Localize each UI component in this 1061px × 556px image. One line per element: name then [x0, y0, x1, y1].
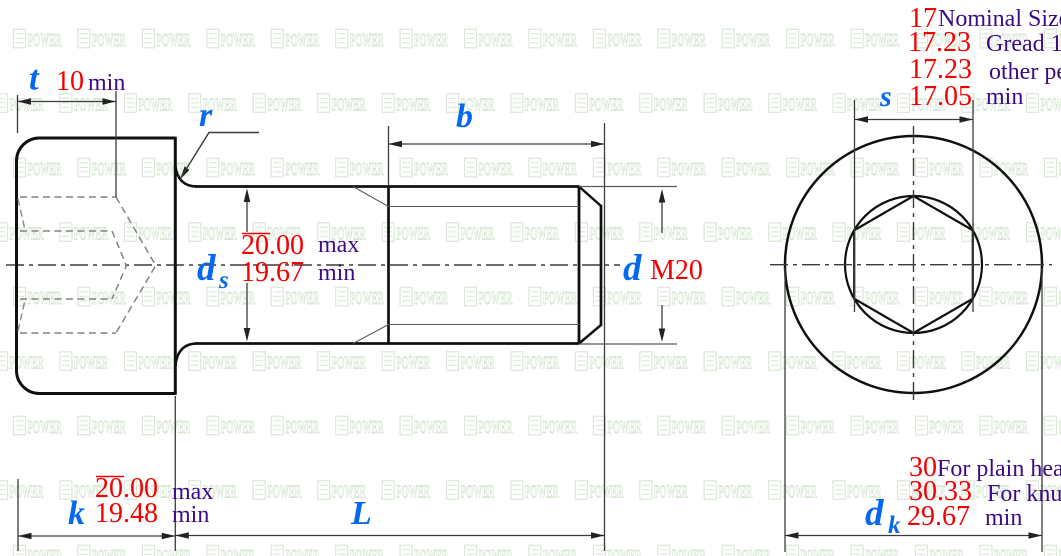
overline on k 20.00	[96, 476, 124, 478]
dim b extension left	[388, 126, 390, 185]
dim d arrow up	[661, 194, 663, 233]
svg-text:min: min	[986, 84, 1023, 110]
svg-text:max: max	[318, 232, 359, 258]
svg-text:min: min	[985, 505, 1022, 531]
dim dk line	[785, 535, 1042, 537]
svg-text:19.67: 19.67	[241, 257, 304, 288]
svg-text:other per: other per	[989, 59, 1061, 85]
dim t extension right (socket depth)	[115, 91, 117, 197]
svg-text:17.05: 17.05	[909, 81, 972, 112]
leader r arrow	[180, 166, 190, 180]
svg-text:min: min	[318, 260, 355, 286]
socket entry chamfer bottom	[18, 300, 25, 331]
svg-text:M20: M20	[650, 255, 703, 286]
shank top line	[195, 185, 579, 188]
dim t line	[18, 101, 117, 103]
end view outer circle	[785, 136, 1042, 393]
svg-text:b: b	[456, 98, 473, 135]
svg-text:r: r	[199, 97, 213, 134]
end chamfer top	[579, 187, 601, 207]
centerline side view	[6, 264, 620, 266]
end view hex socket	[854, 196, 973, 333]
dim b arrow left	[389, 141, 403, 148]
svg-text:s: s	[879, 80, 892, 113]
dim L arrow right	[591, 532, 605, 539]
dim L line	[175, 535, 604, 537]
dim t extension left	[17, 95, 19, 133]
end view centerline vertical	[913, 126, 915, 405]
dim k arrow right	[162, 533, 176, 540]
dim b line	[389, 143, 605, 145]
dim k extension left	[17, 479, 19, 551]
socket hex small chevron	[112, 231, 127, 299]
dim dk extension left	[784, 268, 786, 552]
dim dk extension right	[1041, 268, 1043, 552]
end view socket circle	[845, 196, 982, 333]
svg-text:L: L	[350, 495, 372, 532]
svg-text:t: t	[29, 59, 40, 98]
dim ds arrow up	[246, 193, 248, 232]
dim t arrow right	[103, 98, 117, 105]
dim ds arrow down	[246, 283, 248, 337]
fillet top r	[175, 165, 197, 187]
svg-text:min: min	[172, 502, 209, 528]
end face	[600, 205, 603, 326]
socket hidden line outer top	[20, 196, 116, 198]
dim L arrow left	[175, 532, 189, 539]
head right face	[174, 137, 177, 395]
svg-text:k: k	[68, 495, 85, 532]
leader r line	[181, 133, 259, 178]
thread start line	[387, 186, 390, 345]
svg-text:k: k	[888, 512, 901, 539]
dim s extension left	[854, 100, 856, 312]
thread runout top	[353, 187, 389, 207]
dim d arrow down	[661, 305, 663, 338]
thread runout bottom	[353, 325, 389, 344]
socket hidden line inner bottom	[20, 298, 112, 300]
svg-text:For knurled: For knurled	[987, 481, 1061, 507]
dim b extension right / L extension right	[604, 123, 606, 551]
dim k extension right	[174, 396, 176, 551]
dim s arrow right	[960, 116, 974, 123]
thread minor bottom	[389, 324, 580, 326]
dim t arrow left	[18, 98, 32, 105]
dim s line	[855, 119, 974, 121]
end chamfer bottom	[579, 325, 601, 344]
overline on 20.00	[242, 233, 270, 235]
socket hidden line outer bottom	[20, 332, 116, 334]
svg-text:d: d	[197, 248, 216, 289]
socket cone big chevron	[116, 197, 156, 333]
dim dk arrow right	[1029, 532, 1043, 539]
svg-text:10: 10	[56, 66, 84, 97]
head outline	[17, 138, 176, 394]
fillet bottom	[175, 344, 197, 367]
svg-text:d: d	[865, 493, 884, 534]
svg-text:s: s	[218, 267, 229, 294]
dim s arrow left	[855, 116, 869, 123]
shank bottom line	[195, 342, 579, 345]
dim dk arrow left	[785, 532, 799, 539]
dim b arrow right	[591, 141, 605, 148]
end view centerline horizontal	[770, 264, 1052, 266]
thread minor top	[389, 206, 580, 208]
svg-text:19.48: 19.48	[95, 498, 158, 529]
svg-text:Gread 12: Gread 12	[986, 31, 1061, 57]
svg-text:29.67: 29.67	[907, 501, 970, 532]
socket hidden line inner top	[20, 230, 112, 232]
dim k line	[18, 535, 175, 537]
thread end line	[578, 186, 581, 345]
svg-text:d: d	[623, 248, 642, 289]
dim k arrow left	[18, 533, 32, 540]
d crest line extended bottom	[579, 343, 677, 345]
svg-text:min: min	[88, 70, 125, 96]
d crest line extended top	[579, 186, 677, 188]
socket entry chamfer top	[18, 199, 25, 230]
dim s extension right	[972, 100, 974, 312]
